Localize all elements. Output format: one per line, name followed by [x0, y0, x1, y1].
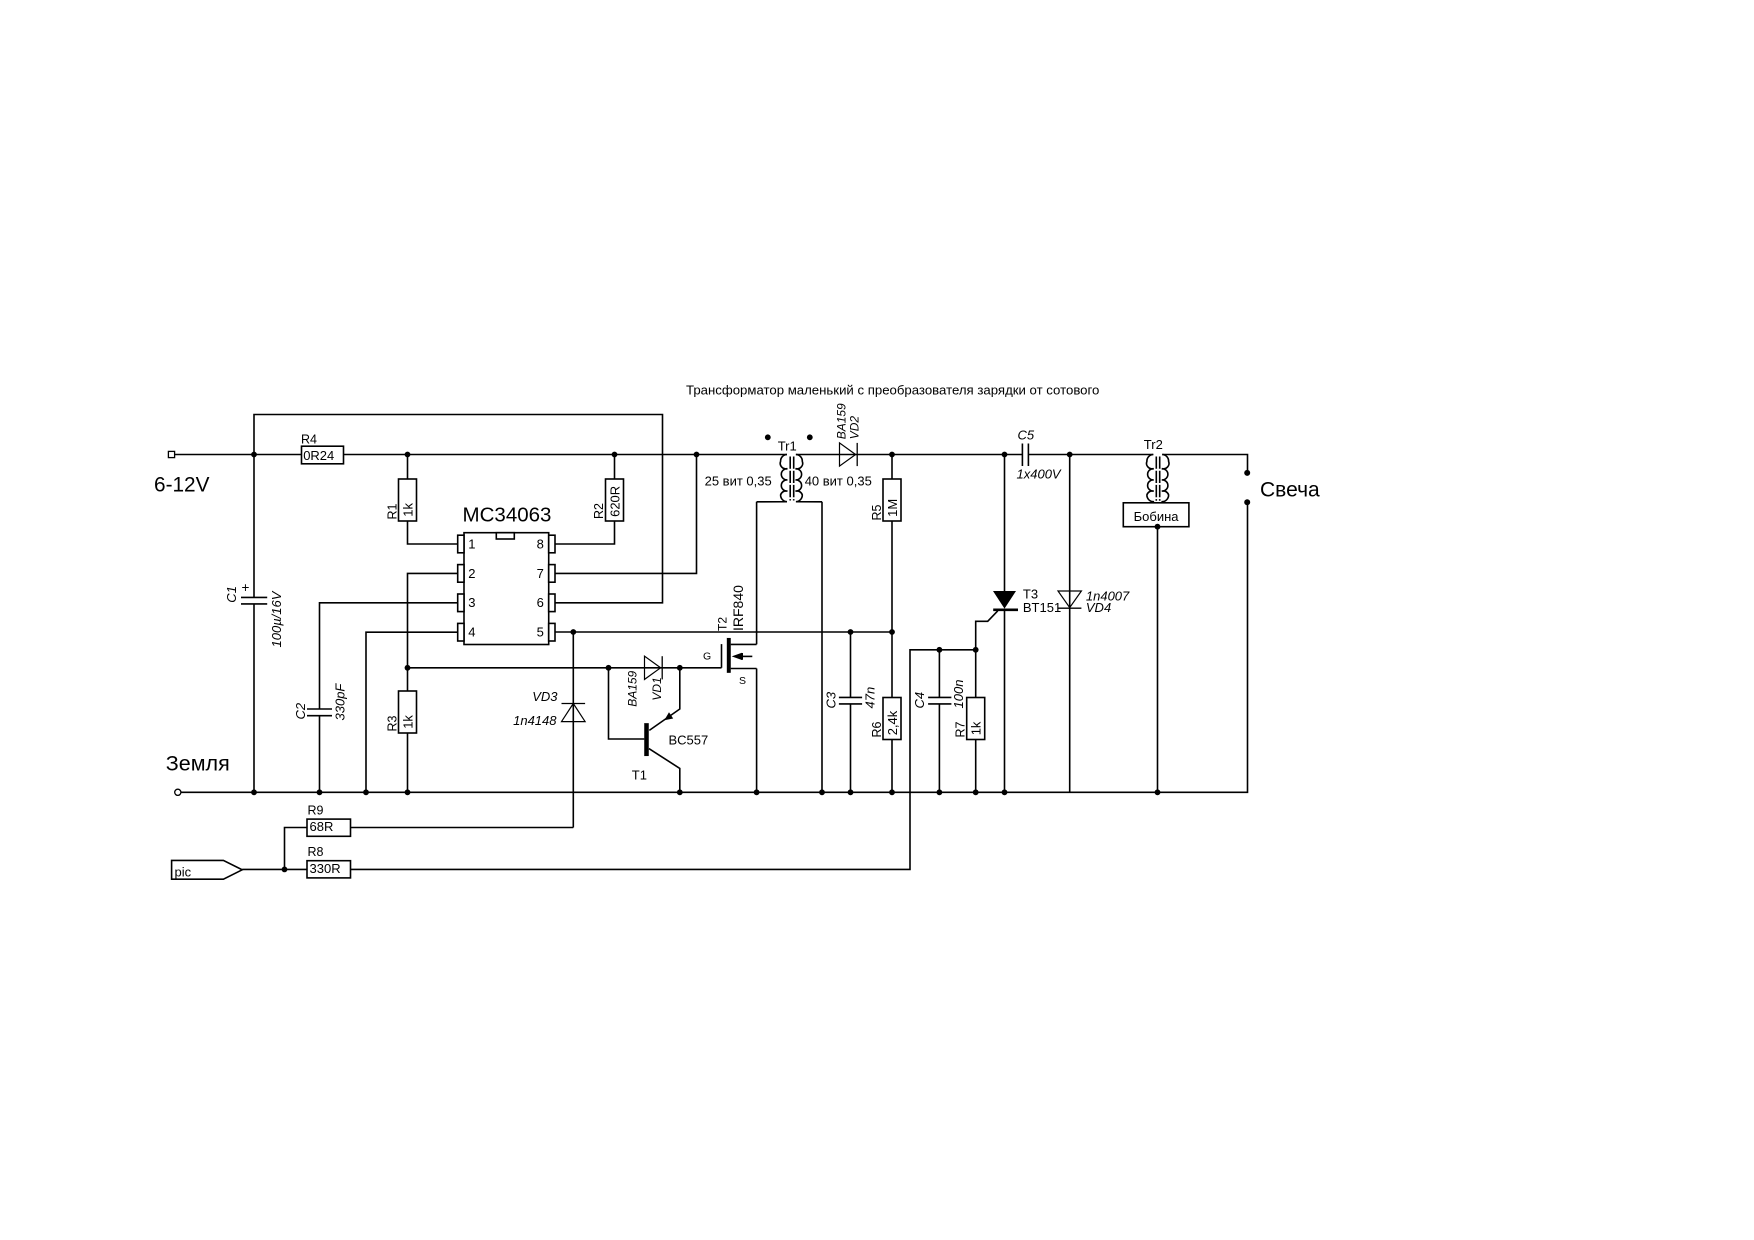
- svg-text:330pF: 330pF: [333, 683, 348, 721]
- junction rail R2: [612, 452, 618, 458]
- wire VD4 branch: [1069, 455, 1071, 793]
- svg-text:Свеча: Свеча: [1260, 479, 1320, 502]
- wire Tr1 secondary to VD2 to C5: [796, 454, 1023, 456]
- wire R7 bottom: [975, 740, 977, 793]
- diode VD3 1n4148: [513, 689, 585, 728]
- svg-text:40 вит 0,35: 40 вит 0,35: [805, 473, 872, 488]
- wire R2 bottom to pin 8: [555, 521, 615, 544]
- svg-text:C4: C4: [912, 692, 927, 709]
- transistor T2 IRF840: [703, 585, 757, 687]
- svg-text:R9: R9: [308, 804, 324, 818]
- svg-text:25 вит 0,35: 25 вит 0,35: [705, 473, 772, 488]
- svg-text:MC34063: MC34063: [463, 503, 552, 526]
- junction C4 top: [937, 647, 943, 653]
- svg-text:R4: R4: [301, 432, 317, 446]
- resistor R4: [301, 432, 344, 464]
- svg-text:1: 1: [468, 536, 475, 551]
- svg-text:G: G: [703, 651, 711, 663]
- svg-text:C1: C1: [224, 586, 239, 603]
- junction R7 gate: [973, 647, 979, 653]
- svg-text:Tr1: Tr1: [778, 439, 797, 454]
- svg-text:R5: R5: [870, 504, 884, 520]
- svg-text:68R: 68R: [310, 819, 334, 834]
- svg-text:pic: pic: [175, 864, 192, 879]
- resistor R8: [307, 845, 351, 878]
- junction gnd pin4: [363, 789, 369, 795]
- junction pin5 C3: [848, 629, 854, 635]
- wire C1 branch upper: [253, 455, 255, 598]
- svg-text:R2: R2: [592, 503, 606, 519]
- wire pin 7 to rail: [555, 455, 697, 574]
- svg-text:VD2: VD2: [848, 416, 862, 440]
- wire R6 bottom: [891, 740, 893, 793]
- junction gnd R3: [405, 789, 411, 795]
- svg-text:1k: 1k: [400, 715, 415, 729]
- wire top bypass pin6 loop: [254, 415, 663, 603]
- svg-text:0R24: 0R24: [303, 448, 334, 463]
- capacitor C4: [912, 680, 966, 709]
- wire base node VD1 gate: [408, 667, 722, 669]
- wire T3 gate: [976, 611, 998, 650]
- wire R3 top: [407, 668, 409, 691]
- wire C4 bottom: [938, 704, 940, 792]
- svg-text:5: 5: [537, 625, 544, 640]
- junction rail R5: [889, 452, 895, 458]
- wire Bobina to ground: [1157, 527, 1159, 793]
- svg-text:IRF840: IRF840: [730, 585, 746, 631]
- diode VD4 1n4007: [1058, 588, 1130, 615]
- junction rail R1: [405, 452, 411, 458]
- junction rail pin7: [694, 452, 700, 458]
- svg-text:7: 7: [537, 566, 544, 581]
- svg-text:C5: C5: [1018, 428, 1035, 443]
- transformer Tr2: [1144, 437, 1169, 503]
- svg-text:VD3: VD3: [532, 689, 558, 704]
- svg-text:BA159: BA159: [835, 403, 849, 439]
- wire C4 top: [938, 650, 940, 698]
- svg-text:100µ/16V: 100µ/16V: [269, 590, 284, 647]
- svg-text:VD1: VD1: [650, 677, 664, 700]
- wire Tr2 to spark gap: [1162, 455, 1247, 473]
- svg-text:2: 2: [468, 566, 475, 581]
- wire T2 drain to Tr1: [756, 502, 758, 645]
- svg-text:620R: 620R: [608, 486, 623, 517]
- wire R6 top: [891, 632, 893, 698]
- ground terminal: [175, 789, 181, 795]
- svg-text:1k: 1k: [400, 502, 415, 516]
- junction base wire R3: [405, 665, 411, 671]
- svg-text:330R: 330R: [310, 861, 341, 876]
- wire T1 collector: [649, 749, 680, 793]
- svg-text:Земля: Земля: [166, 752, 230, 776]
- junction gnd R6: [889, 789, 895, 795]
- svg-text:8: 8: [537, 536, 544, 551]
- svg-text:BT151: BT151: [1023, 600, 1061, 615]
- diode VD1 BA159: [626, 656, 665, 707]
- resistor R2: [592, 479, 624, 521]
- svg-text:R1: R1: [385, 503, 399, 519]
- wire C3 bottom: [850, 704, 852, 792]
- svg-text:6: 6: [537, 595, 544, 610]
- svg-text:Трансформатор маленький с прео: Трансформатор маленький с преобразовател…: [686, 383, 1099, 398]
- svg-text:T2: T2: [716, 617, 730, 631]
- svg-text:BC557: BC557: [669, 733, 709, 748]
- svg-text:+: +: [242, 580, 250, 595]
- pic connector: [172, 860, 243, 879]
- junction gnd C3: [848, 789, 854, 795]
- wire pin 5 node: [555, 631, 893, 633]
- transformer Tr1: [705, 434, 872, 501]
- capacitor C3: [823, 687, 877, 709]
- wire pin 3 to C2: [320, 603, 458, 709]
- thyristor T3 BT151: [993, 586, 1061, 615]
- svg-text:R7: R7: [954, 721, 968, 737]
- junction gnd T1: [677, 789, 683, 795]
- wire VD3 branch: [572, 632, 574, 828]
- ground wire: [181, 502, 1248, 792]
- wire T1 base: [609, 668, 645, 739]
- wire T2 source to ground: [756, 669, 758, 793]
- resistor R6: [870, 698, 901, 740]
- junction pin5 R5 R6: [889, 629, 895, 635]
- transistor T1 BC557: [632, 712, 708, 782]
- op-amp U1 MC34063: [458, 503, 555, 644]
- junction gnd T2 source: [754, 789, 760, 795]
- wire R9 left to R8 junction: [285, 828, 308, 870]
- junction gnd T3: [1002, 789, 1008, 795]
- svg-text:47n: 47n: [863, 687, 878, 709]
- wire pin 4 to ground: [366, 632, 458, 792]
- wire R5 top: [891, 455, 893, 480]
- wire R9 right: [351, 827, 574, 829]
- junction gnd Bobina: [1155, 789, 1161, 795]
- svg-text:R8: R8: [308, 845, 324, 859]
- junction gnd Tr1: [819, 789, 825, 795]
- junction gnd C1: [251, 789, 257, 795]
- svg-text:R6: R6: [870, 721, 884, 737]
- diode VD2 BA159: [835, 403, 862, 466]
- wire pin 2 down: [408, 573, 458, 667]
- capacitor C5: [1017, 428, 1062, 482]
- svg-text:1n4148: 1n4148: [513, 713, 557, 728]
- spark gap Svecha: [1244, 470, 1250, 505]
- junction rail T3: [1002, 452, 1008, 458]
- junction base wire T1 emitter: [677, 665, 683, 671]
- junction base wire T1 base: [606, 665, 612, 671]
- wire R2 top: [614, 455, 616, 480]
- svg-text:1x400V: 1x400V: [1017, 467, 1062, 482]
- resistor R5: [870, 479, 901, 521]
- ignition coil Bobina: [1123, 503, 1189, 527]
- svg-text:100n: 100n: [951, 680, 966, 709]
- svg-text:T1: T1: [632, 768, 647, 783]
- junction Bobina bottom: [1155, 524, 1161, 530]
- junction gnd C4: [937, 789, 943, 795]
- svg-text:6-12V: 6-12V: [154, 474, 210, 497]
- svg-text:R3: R3: [385, 715, 399, 731]
- junction R8 R9: [282, 867, 288, 873]
- svg-text:C3: C3: [823, 691, 838, 708]
- wire C3 top: [850, 632, 852, 697]
- wire T3 cathode to ground: [1004, 610, 1006, 792]
- capacitor C1: [224, 580, 284, 648]
- junction rail VD4: [1067, 452, 1073, 458]
- wire input to R4: [175, 454, 302, 456]
- svg-text:2,4k: 2,4k: [885, 710, 900, 735]
- svg-text:VD4: VD4: [1086, 600, 1111, 615]
- svg-text:1k: 1k: [969, 721, 984, 735]
- wire pic to R8: [242, 868, 307, 870]
- svg-text:BA159: BA159: [626, 670, 640, 706]
- wire R1 top: [407, 455, 409, 480]
- junction gnd R7: [973, 789, 979, 795]
- wire R4 to Tr1 primary: [344, 454, 788, 456]
- junction pin5 VD3: [570, 629, 576, 635]
- wire R3 to ground: [407, 733, 409, 792]
- wire R5 bottom: [891, 521, 893, 632]
- junction gnd C2: [317, 789, 323, 795]
- wire C1 branch lower: [253, 604, 255, 792]
- capacitor C2: [293, 683, 348, 721]
- svg-text:S: S: [739, 675, 746, 687]
- wire R8 to C4 node: [351, 650, 940, 870]
- resistor R9: [307, 804, 351, 837]
- wire T3 anode: [1004, 455, 1006, 592]
- junction rail C1: [251, 452, 257, 458]
- svg-text:C2: C2: [293, 702, 308, 719]
- svg-text:Tr2: Tr2: [1144, 437, 1163, 452]
- wire Tr1 secondary bottom to ground: [821, 502, 823, 793]
- svg-text:4: 4: [468, 625, 475, 640]
- resistor R7: [954, 698, 985, 740]
- wire C5 to Tr2: [1028, 454, 1153, 456]
- svg-text:3: 3: [468, 595, 475, 610]
- resistor R3: [385, 691, 416, 733]
- wire C2 to ground: [319, 716, 321, 793]
- input terminal 6-12V: [168, 451, 174, 457]
- svg-text:Бобина: Бобина: [1134, 509, 1180, 524]
- wire R7 top: [975, 650, 977, 698]
- wire T1 emitter: [649, 668, 680, 731]
- resistor R1: [385, 479, 416, 521]
- wire C4 R7 top: [939, 649, 975, 651]
- svg-text:1M: 1M: [885, 499, 900, 517]
- wire R1 bottom to pin 1: [408, 521, 458, 544]
